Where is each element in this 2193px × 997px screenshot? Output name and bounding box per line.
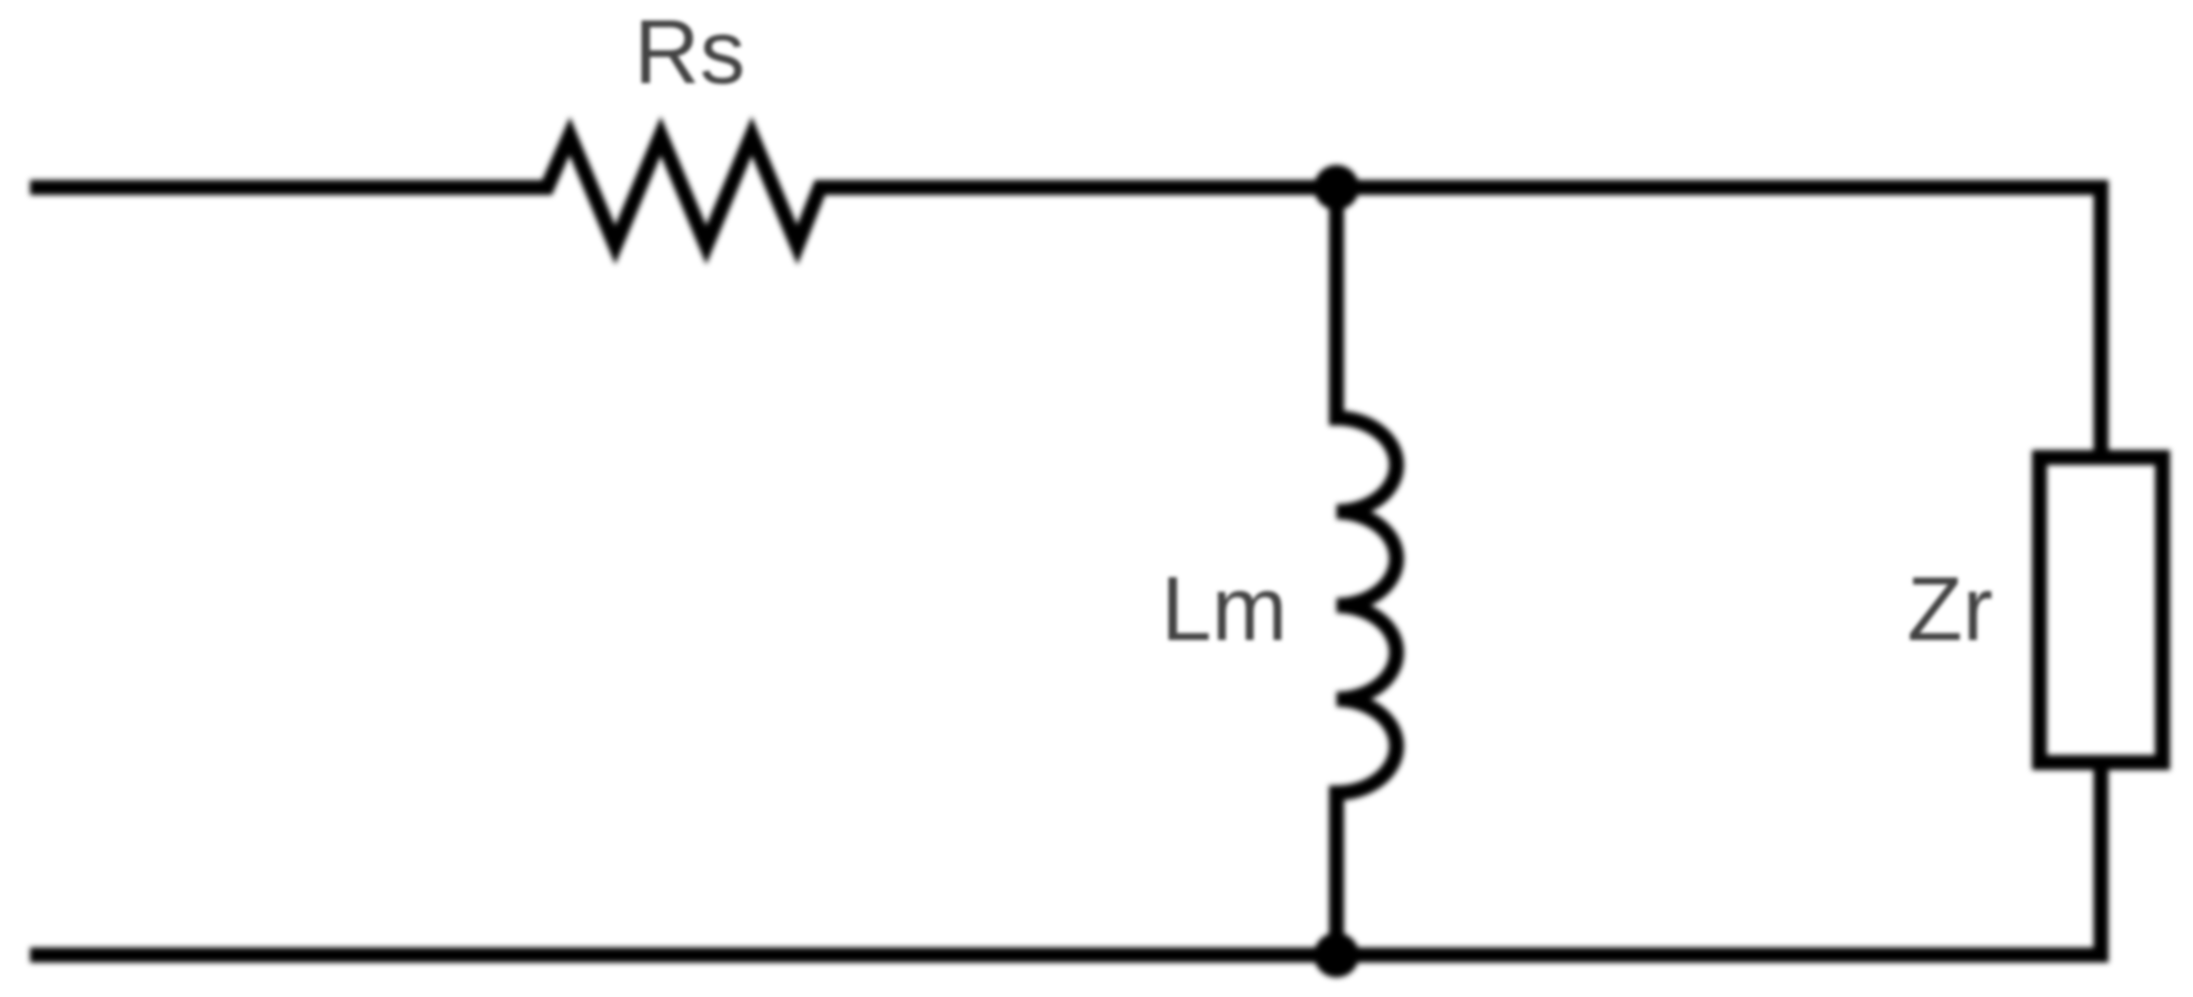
svg-text:Zr: Zr <box>1907 559 1993 660</box>
svg-text:Rs: Rs <box>634 2 745 103</box>
svg-text:Lm: Lm <box>1161 559 1287 660</box>
